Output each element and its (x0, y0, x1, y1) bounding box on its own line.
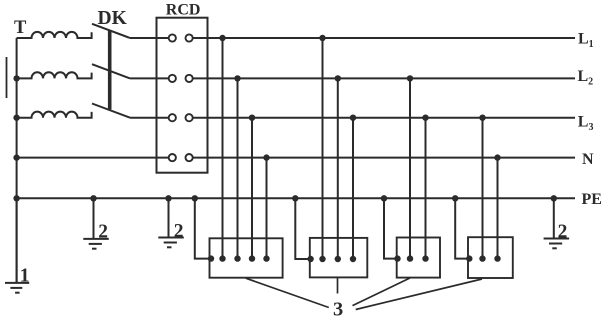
svg-text:2: 2 (174, 221, 184, 242)
svg-text:2: 2 (558, 222, 568, 243)
svg-text:T: T (14, 18, 27, 38)
svg-text:2: 2 (98, 222, 108, 243)
svg-text:3: 3 (333, 298, 343, 319)
svg-text:N: N (582, 151, 594, 168)
svg-text:DK: DK (98, 8, 128, 29)
svg-text:RCD: RCD (166, 2, 201, 19)
svg-text:PE: PE (582, 191, 602, 208)
svg-text:1: 1 (20, 266, 30, 287)
